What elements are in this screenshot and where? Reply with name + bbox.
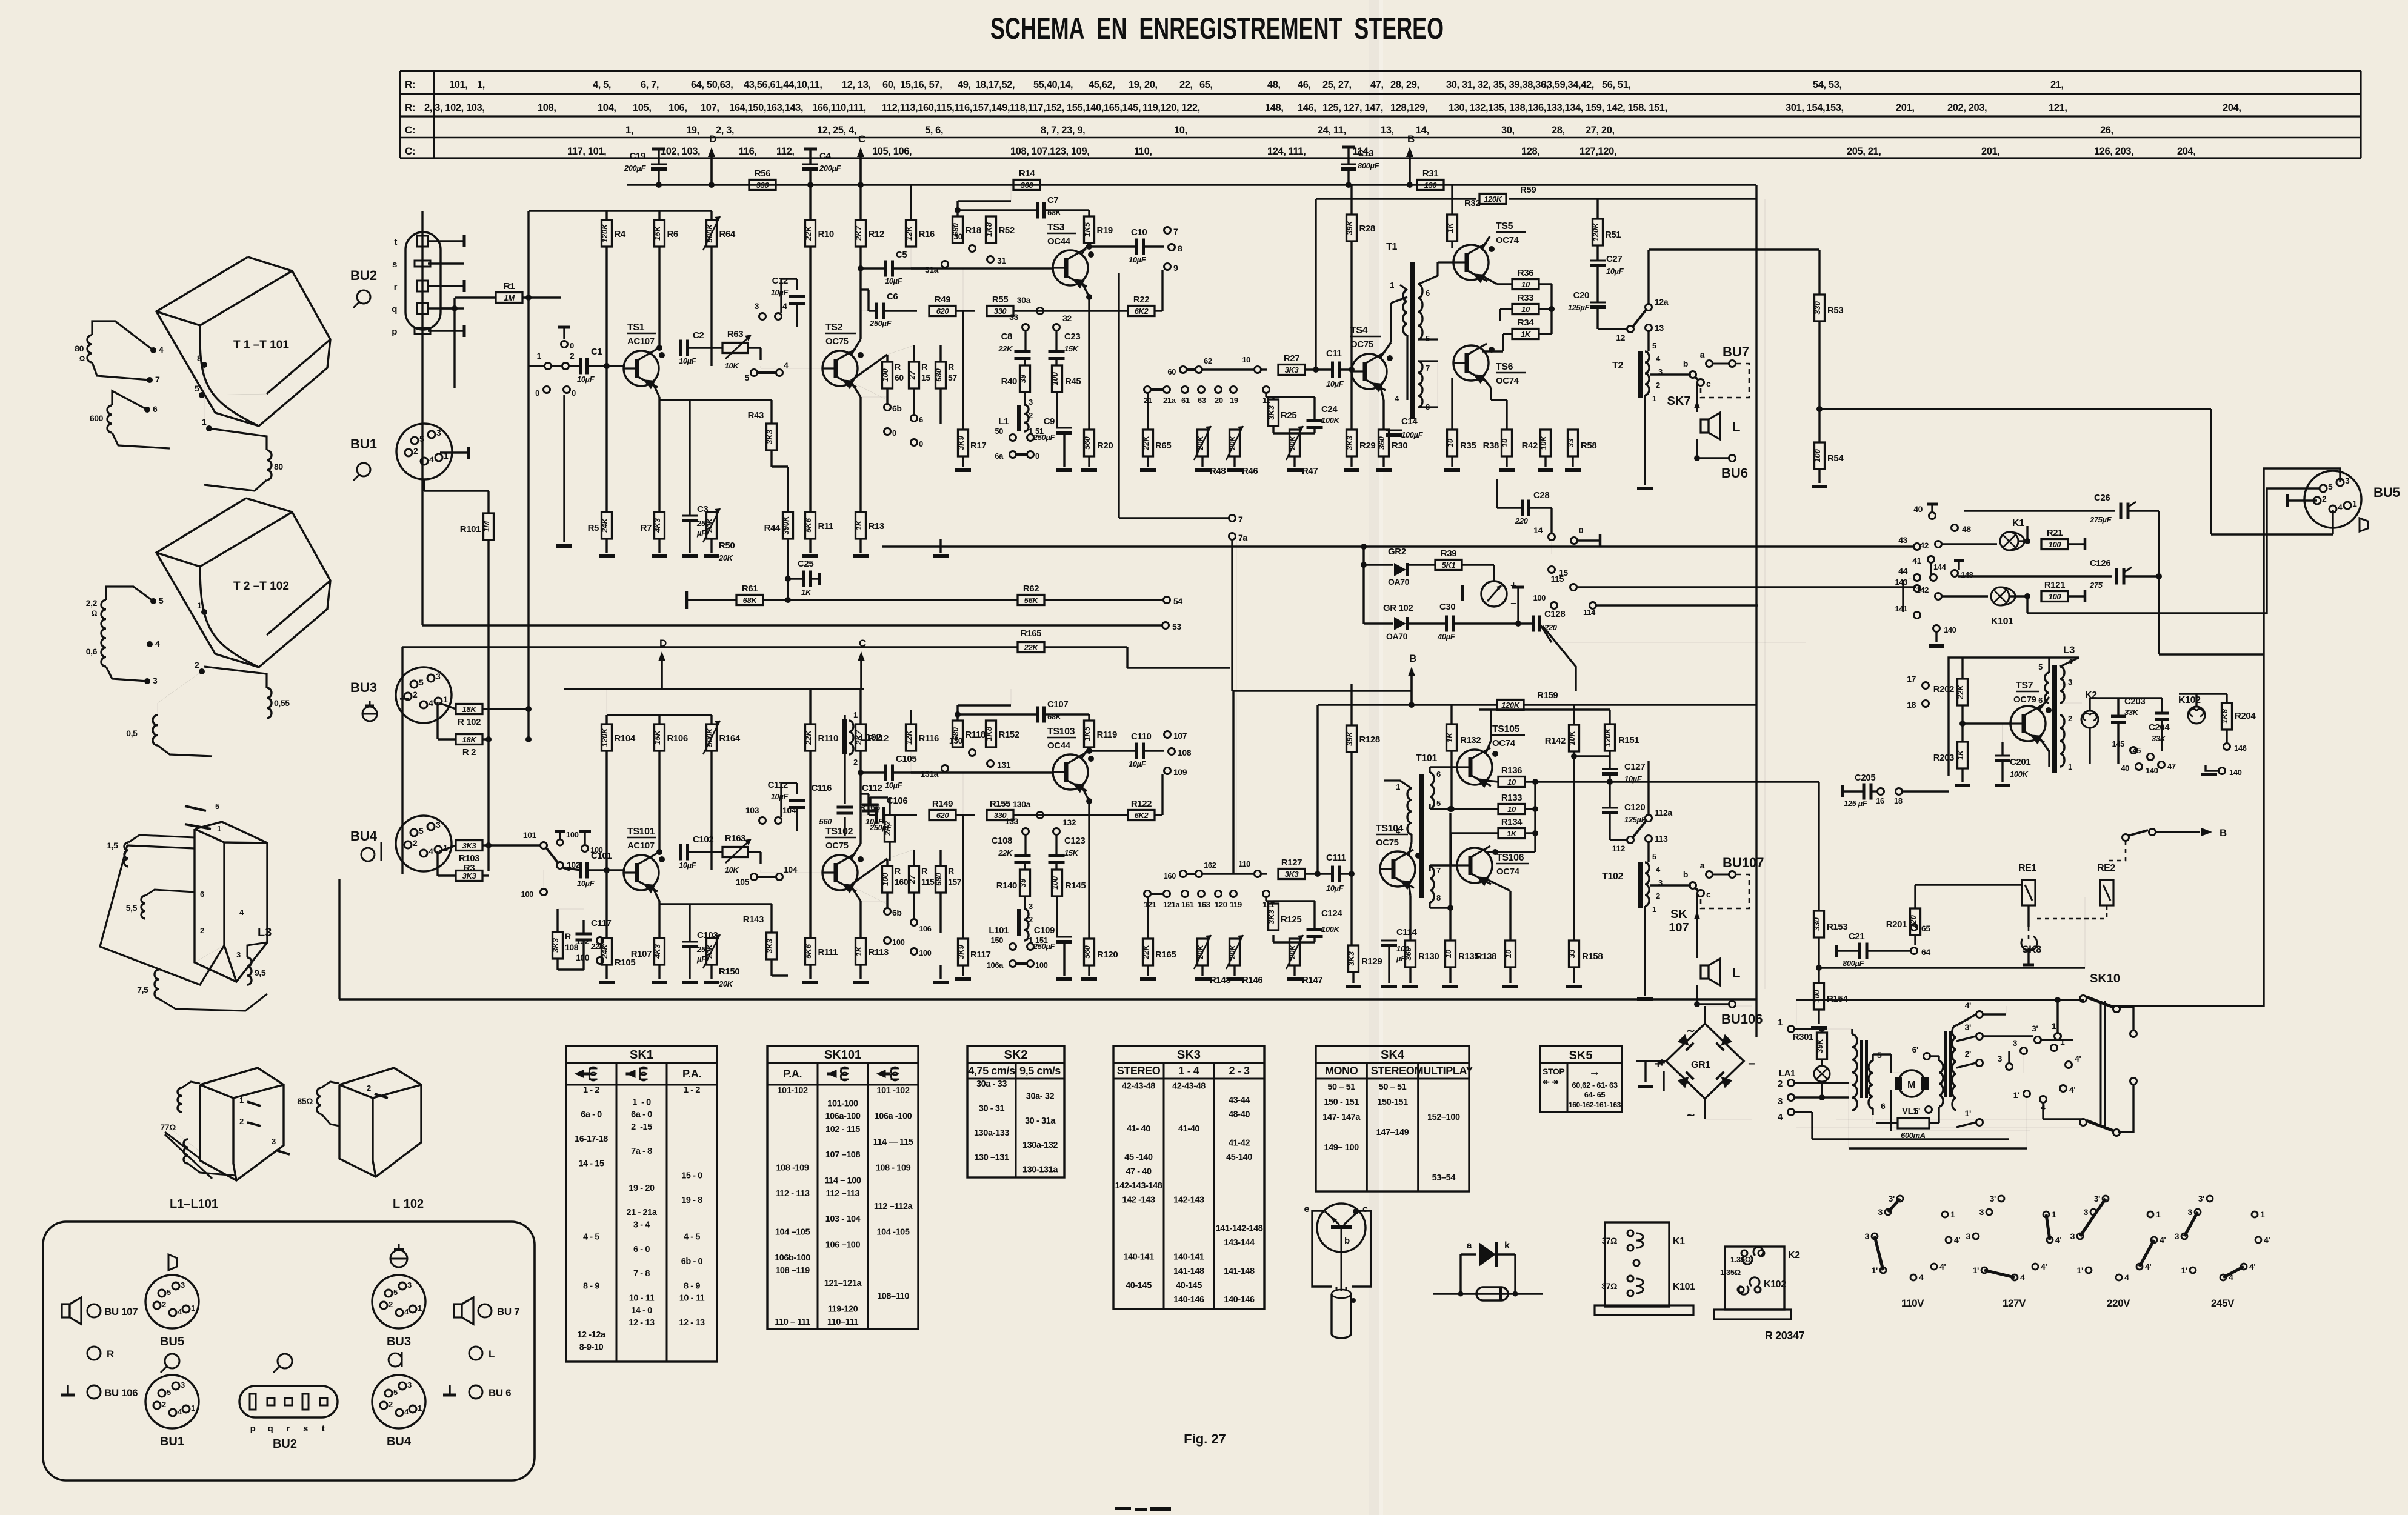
- svg-text:275µF: 275µF: [2089, 515, 2112, 524]
- svg-text:2: 2: [200, 926, 204, 935]
- svg-text:Ω: Ω: [79, 355, 85, 363]
- resistor R39: [1435, 560, 1462, 570]
- contact row 21-11: [1144, 387, 1151, 393]
- svg-text:R25: R25: [1281, 410, 1296, 421]
- wire y1597 long: [1819, 967, 2085, 968]
- svg-text:117, 101,: 117, 101,: [567, 146, 606, 157]
- svg-text:120: 120: [1215, 900, 1227, 909]
- svg-text:26,: 26,: [2100, 125, 2113, 136]
- svg-text:TS4: TS4: [1350, 325, 1368, 336]
- svg-text:2K2: 2K2: [883, 821, 892, 836]
- wire T2 tap to SK7: [1650, 373, 1691, 375]
- resistor R116: [906, 724, 916, 751]
- svg-text:4, 5,: 4, 5,: [593, 79, 611, 90]
- potentiometer R46: [1230, 430, 1240, 456]
- resistor R36: [1512, 279, 1539, 290]
- svg-text:1.35Ω: 1.35Ω: [1720, 1268, 1741, 1277]
- svg-text:116,: 116,: [739, 146, 757, 157]
- svg-text:10µF: 10µF: [679, 356, 697, 365]
- contact 45: [2147, 754, 2154, 761]
- wire BU4 pin4 to R103: [439, 845, 456, 851]
- svg-text:6: 6: [919, 415, 923, 424]
- svg-text:1: 1: [2052, 1021, 2056, 1031]
- ground: [1637, 487, 1653, 490]
- svg-text:126, 203,: 126, 203,: [2094, 146, 2133, 157]
- svg-text:64: 64: [1921, 947, 1930, 957]
- svg-text:R155: R155: [990, 799, 1010, 809]
- resistor R112: [856, 724, 866, 751]
- svg-text:b: b: [1683, 870, 1688, 879]
- switch contacts 5/4: [751, 874, 758, 881]
- svg-text:3: 3: [2068, 678, 2072, 687]
- svg-text:10: 10: [1504, 949, 1513, 958]
- speaker icon BU7: [454, 1304, 462, 1317]
- svg-text:BU2: BU2: [350, 268, 377, 283]
- svg-text:t: t: [394, 237, 397, 247]
- capacitor C12: [789, 295, 805, 298]
- svg-text:40µF: 40µF: [1437, 632, 1456, 641]
- svg-text:7a: 7a: [1238, 533, 1247, 542]
- capacitor C10: [1135, 239, 1138, 255]
- svg-text:41-42: 41-42: [1229, 1139, 1250, 1148]
- transistor TS105: [1457, 750, 1492, 785]
- svg-text:R17: R17: [970, 441, 986, 451]
- svg-text:150: 150: [991, 936, 1004, 945]
- svg-text:C108: C108: [992, 836, 1012, 846]
- wires SK10 area: [2056, 1000, 2058, 1033]
- svg-text:1M: 1M: [482, 521, 491, 532]
- svg-text:2': 2': [1965, 1049, 1971, 1059]
- resistor R154: [1814, 983, 1824, 1010]
- svg-text:5: 5: [195, 384, 199, 393]
- contact 53: [1162, 622, 1169, 629]
- svg-text:4 - 5: 4 - 5: [583, 1233, 599, 1242]
- svg-text:TS1: TS1: [627, 322, 645, 333]
- selector contacts right: [1983, 1035, 2033, 1037]
- svg-text:105,: 105,: [633, 102, 652, 113]
- resistor R118: [953, 721, 963, 747]
- contact BU6: [1697, 1003, 1729, 1005]
- capacitor C204: [2155, 712, 2169, 715]
- svg-text:5K6: 5K6: [804, 518, 813, 533]
- potentiometer R163: [722, 847, 748, 857]
- ground: [1502, 985, 1518, 988]
- mic symbol above BU1: [165, 1354, 179, 1368]
- switch contact 1/2: [545, 363, 552, 370]
- svg-text:22K: 22K: [1141, 944, 1150, 959]
- wire R59 line: [1316, 198, 1476, 199]
- svg-text:140-146: 140-146: [1173, 1295, 1204, 1305]
- svg-text:20K: 20K: [718, 979, 734, 988]
- svg-text:33,59,34,42,: 33,59,34,42,: [1541, 79, 1594, 90]
- svg-text:R:: R:: [405, 102, 415, 113]
- svg-text:2: 2: [195, 660, 199, 670]
- svg-text:e: e: [1304, 1204, 1310, 1214]
- svg-text:101-100: 101-100: [827, 1099, 858, 1108]
- wire TS7 collector to L3: [2039, 737, 2049, 751]
- svg-text:C13: C13: [1358, 148, 1373, 159]
- svg-text:140: 140: [1944, 625, 1956, 634]
- svg-text:3K3: 3K3: [765, 429, 774, 444]
- switch table SK3: [1113, 1046, 1264, 1309]
- contact 7/7a upper: [1229, 515, 1236, 522]
- svg-text:6a - 0: 6a - 0: [581, 1110, 602, 1120]
- wire TS3 base: [911, 267, 1054, 269]
- svg-text:47: 47: [2167, 762, 2176, 771]
- svg-text:C5: C5: [896, 250, 907, 260]
- svg-text:32: 32: [1062, 313, 1072, 323]
- svg-text:3: 3: [755, 301, 759, 311]
- svg-text:114: 114: [1583, 608, 1596, 617]
- svg-text:+: +: [1658, 1056, 1666, 1070]
- resistor R132: [1447, 724, 1457, 751]
- svg-text:→: →: [1589, 1065, 1601, 1079]
- svg-text:85Ω: 85Ω: [297, 1096, 313, 1106]
- wire switch to T2: [1647, 250, 1649, 304]
- svg-text:680: 680: [934, 368, 943, 381]
- wire sub-rail R4 row: [529, 210, 712, 211]
- svg-text:3: 3: [2070, 1231, 2075, 1241]
- switch SK8: [2028, 927, 2030, 939]
- svg-text:R47: R47: [1302, 466, 1318, 476]
- svg-text:4: 4: [1656, 865, 1661, 874]
- switch table SK101: [767, 1046, 918, 1329]
- wire y1080: [2159, 653, 2264, 655]
- svg-text:STEREO: STEREO: [1371, 1065, 1415, 1077]
- svg-text:3': 3': [1990, 1194, 1996, 1204]
- svg-text:12a: 12a: [1655, 297, 1669, 307]
- svg-text:130: 130: [949, 736, 963, 745]
- svg-text:47,: 47,: [1370, 79, 1384, 90]
- svg-text:45,62,: 45,62,: [1089, 79, 1115, 90]
- svg-text:19 - 20: 19 - 20: [629, 1184, 655, 1193]
- transistor TS104: [1380, 851, 1415, 887]
- resistor R101: [484, 513, 494, 540]
- capacitor C1: [579, 358, 582, 375]
- wire BU5 pin3 loop: [2110, 468, 2340, 1006]
- connector BU3: [372, 1275, 425, 1328]
- svg-text:R36: R36: [1518, 268, 1533, 278]
- transistor cylinder: [1332, 1294, 1351, 1338]
- svg-text:40: 40: [1913, 504, 1923, 514]
- svg-text:30a - 33: 30a - 33: [976, 1079, 1007, 1089]
- svg-text:10: 10: [1521, 280, 1530, 289]
- svg-text:1K: 1K: [801, 588, 812, 597]
- resistor R5: [602, 512, 612, 539]
- svg-text:R163: R163: [725, 833, 745, 844]
- capacitor C103: [682, 941, 698, 943]
- connector panel outline: [43, 1222, 535, 1480]
- svg-text:4: 4: [1396, 827, 1401, 836]
- svg-text:27: 27: [907, 874, 916, 884]
- svg-text:33K: 33K: [2124, 708, 2140, 717]
- svg-text:R203: R203: [1933, 753, 1954, 763]
- svg-text:7a - 8: 7a - 8: [631, 1147, 652, 1156]
- capacitor C7: [1036, 202, 1039, 219]
- svg-text:TS103: TS103: [1047, 727, 1075, 737]
- svg-text:R51: R51: [1605, 230, 1621, 240]
- svg-text:SK101: SK101: [824, 1048, 861, 1062]
- capacitor C112: [862, 804, 879, 807]
- svg-text:127V: 127V: [2003, 1297, 2026, 1309]
- transformer motor side: [1939, 1061, 1943, 1107]
- T1 coil 80 right: [267, 450, 272, 480]
- T2 coil right: [267, 688, 272, 718]
- contact 148: [1952, 570, 1958, 577]
- resistor R142: [1569, 725, 1579, 751]
- svg-text:4: 4: [429, 847, 433, 856]
- svg-text:115: 115: [1551, 574, 1564, 584]
- capacitor C6: [875, 303, 878, 319]
- resistor R10: [805, 220, 816, 247]
- ground: [1140, 977, 1156, 981]
- svg-text:132: 132: [1062, 817, 1076, 827]
- svg-text:R29: R29: [1359, 441, 1375, 451]
- svg-text:GR 102: GR 102: [1383, 603, 1413, 613]
- svg-text:T2: T2: [1612, 361, 1623, 371]
- diagonal wire: [1539, 624, 1552, 642]
- svg-text:BU5: BU5: [2373, 485, 2400, 500]
- svg-text:L 102: L 102: [393, 1197, 424, 1211]
- relay RE1: [2022, 880, 2035, 905]
- svg-text:C128: C128: [1544, 609, 1565, 619]
- potentiometer R63: [722, 343, 748, 353]
- svg-text:C26: C26: [2094, 493, 2110, 503]
- transformer T102: [1638, 862, 1643, 908]
- svg-text:600mA: 600mA: [1901, 1131, 1926, 1140]
- svg-text:0,6: 0,6: [86, 647, 98, 656]
- svg-text:100: 100: [1533, 593, 1546, 602]
- svg-text:80: 80: [75, 344, 84, 353]
- svg-text:6K2: 6K2: [1135, 811, 1149, 820]
- svg-text:201,: 201,: [1896, 102, 1915, 113]
- capacitor C109: [1056, 936, 1072, 938]
- svg-text:127,120,: 127,120,: [1579, 146, 1616, 157]
- a symbol BU4: [361, 842, 381, 861]
- svg-text:22K: 22K: [804, 225, 813, 241]
- transistor TS6: [1453, 345, 1489, 381]
- svg-text:AC107: AC107: [627, 336, 655, 347]
- svg-text:1K5: 1K5: [1082, 726, 1092, 741]
- node B lower: [1410, 675, 1413, 705]
- resistor R30: [1379, 430, 1389, 456]
- capacitor C203: [2111, 715, 2126, 718]
- svg-text:5K6: 5K6: [804, 944, 813, 959]
- resistor R166: [885, 815, 895, 842]
- contact 140 gnd: [2206, 765, 2218, 771]
- transistor TS102: [822, 855, 858, 890]
- svg-text:10: 10: [1446, 438, 1455, 447]
- resistor R120: [1084, 939, 1095, 965]
- coil L3 isometric: [195, 822, 267, 982]
- svg-text:2K7: 2K7: [854, 225, 863, 241]
- svg-text:13: 13: [1655, 323, 1664, 333]
- svg-text:1K: 1K: [1521, 330, 1532, 339]
- transistor TS106: [1457, 848, 1492, 883]
- svg-text:21 - 21a: 21 - 21a: [626, 1208, 657, 1217]
- svg-text:C23: C23: [1064, 331, 1080, 342]
- svg-text:5: 5: [419, 826, 424, 836]
- svg-text:54: 54: [1173, 596, 1182, 606]
- svg-text:5, 6,: 5, 6,: [925, 125, 943, 136]
- svg-text:160: 160: [1164, 871, 1176, 881]
- svg-text:146: 146: [2234, 744, 2247, 753]
- svg-text:360: 360: [1377, 436, 1386, 449]
- contact BU7: [1729, 871, 1736, 878]
- svg-text:R101: R101: [460, 524, 481, 534]
- svg-text:107 –108: 107 –108: [825, 1150, 861, 1160]
- capacitor C105: [884, 765, 887, 781]
- svg-text:Fig. 27: Fig. 27: [1184, 1431, 1226, 1447]
- svg-text:5: 5: [2328, 482, 2333, 491]
- svg-text:57: 57: [948, 373, 957, 382]
- svg-text:T 1 –T 101: T 1 –T 101: [233, 339, 289, 351]
- svg-text:48: 48: [1962, 524, 1971, 534]
- svg-text:30,: 30,: [1501, 125, 1515, 136]
- meter M: [1481, 581, 1507, 607]
- svg-text:10: 10: [1507, 777, 1516, 787]
- ground: [1195, 977, 1210, 981]
- svg-text:C6: C6: [887, 291, 898, 302]
- svg-text:2: 2: [389, 1400, 393, 1409]
- svg-text:110–111: 110–111: [827, 1317, 859, 1327]
- wire TS3 base: [911, 771, 1054, 773]
- svg-text:0,5: 0,5: [126, 728, 139, 738]
- lamp K102: [2188, 707, 2205, 724]
- svg-text:12, 25, 4,: 12, 25, 4,: [817, 125, 856, 136]
- svg-text:R39: R39: [1441, 548, 1456, 559]
- svg-text:R107: R107: [631, 949, 652, 959]
- svg-text:22K: 22K: [1024, 643, 1039, 652]
- L3 coil 7.5: [155, 970, 159, 999]
- svg-text:C9: C9: [1044, 416, 1055, 427]
- svg-text:C114: C114: [1396, 927, 1417, 937]
- svg-text:103: 103: [745, 805, 759, 815]
- svg-text:R53: R53: [1827, 305, 1843, 316]
- wire TS2 collector: [851, 844, 861, 859]
- svg-text:9: 9: [1173, 263, 1178, 273]
- svg-text:b: b: [1344, 1236, 1350, 1246]
- ground: [1538, 468, 1553, 472]
- speaker icon BU107: [62, 1304, 70, 1317]
- wire TS5 emitter: [1482, 236, 1490, 249]
- svg-text:145: 145: [2112, 739, 2125, 748]
- svg-text:112a: 112a: [1655, 808, 1672, 817]
- svg-text:10K: 10K: [1539, 435, 1548, 450]
- svg-text:44: 44: [1898, 566, 1907, 576]
- svg-text:↞ ↠: ↞ ↠: [1543, 1077, 1559, 1087]
- svg-text:3K3: 3K3: [1267, 909, 1276, 924]
- svg-text:C102: C102: [693, 834, 713, 845]
- svg-text:s: s: [392, 259, 397, 270]
- svg-text:4: 4: [1395, 394, 1399, 403]
- connector BU1: [145, 1375, 199, 1428]
- svg-text:390K: 390K: [781, 515, 790, 535]
- svg-text:4: 4: [1656, 354, 1661, 363]
- svg-text:BU4: BU4: [387, 1435, 412, 1448]
- svg-text:100: 100: [919, 948, 932, 957]
- T2 terminals: [150, 598, 156, 604]
- svg-text:13,: 13,: [1381, 125, 1394, 136]
- svg-text:10µF: 10µF: [1129, 759, 1147, 768]
- svg-text:119-120: 119-120: [828, 1305, 858, 1314]
- svg-text:100: 100: [1050, 371, 1059, 385]
- svg-text:108: 108: [565, 942, 579, 952]
- svg-text:4': 4': [2069, 1085, 2075, 1094]
- svg-text:R142: R142: [1545, 736, 1566, 746]
- svg-text:106a: 106a: [987, 961, 1004, 970]
- svg-text:3: 3: [2175, 1231, 2180, 1241]
- svg-text:C30: C30: [1439, 602, 1455, 612]
- svg-text:48,: 48,: [1267, 79, 1281, 90]
- svg-text:R111: R111: [818, 947, 838, 957]
- contact 100/114: [1551, 602, 1558, 609]
- svg-text:C12: C12: [772, 276, 788, 286]
- svg-text:OC74: OC74: [1496, 235, 1519, 245]
- svg-text:SK2: SK2: [1004, 1048, 1028, 1062]
- svg-text:18,17,52,: 18,17,52,: [975, 79, 1015, 90]
- svg-text:1: 1: [2156, 1210, 2161, 1219]
- svg-text:TS2: TS2: [825, 322, 843, 333]
- svg-text:−: −: [1510, 598, 1516, 610]
- ground: [1056, 468, 1072, 472]
- svg-text:43,56,61,44,10,11,: 43,56,61,44,10,11,: [744, 79, 822, 90]
- svg-text:R103: R103: [459, 853, 479, 864]
- svg-text:3K9: 3K9: [956, 435, 966, 450]
- svg-text:C107: C107: [1047, 699, 1068, 710]
- svg-text:C124: C124: [1321, 908, 1342, 919]
- wire switch to T2: [1647, 761, 1649, 814]
- svg-text:146,: 146,: [1298, 102, 1316, 113]
- svg-text:R121: R121: [2044, 580, 2065, 590]
- contact 144: [1930, 574, 1937, 581]
- svg-text:SK: SK: [1670, 908, 1687, 921]
- svg-text:1: 1: [2052, 1210, 2056, 1219]
- resistor R155: [987, 810, 1013, 821]
- svg-text:c: c: [1706, 890, 1711, 899]
- capacitor C5: [884, 261, 887, 277]
- svg-text:120K: 120K: [600, 727, 609, 747]
- relay coil K2 K102 pictorial: [1725, 1247, 1784, 1310]
- svg-text:C112: C112: [768, 780, 788, 790]
- lamp LA1: [1814, 1066, 1830, 1082]
- svg-text:OA70: OA70: [1388, 577, 1410, 587]
- wire TS4 base: [1352, 369, 1353, 370]
- svg-text:250µF: 250µF: [1033, 942, 1056, 951]
- svg-text:C7: C7: [1047, 195, 1058, 205]
- L3 coil 9.5: [247, 957, 252, 985]
- wire R165 line: [402, 646, 1018, 648]
- svg-text:T1: T1: [1386, 242, 1397, 252]
- resistor R129: [1349, 945, 1359, 972]
- contact 145: [2130, 747, 2137, 754]
- svg-text:MULTIPLAY: MULTIPLAY: [1415, 1065, 1473, 1077]
- svg-text:3: 3: [181, 1380, 185, 1390]
- capacitor C112: [789, 799, 805, 802]
- resistor R45: [1052, 365, 1062, 392]
- contact 143: [1914, 585, 1921, 592]
- svg-text:140: 140: [2146, 766, 2158, 775]
- svg-text:4: 4: [239, 908, 244, 917]
- svg-text:R43: R43: [748, 410, 764, 421]
- svg-text:3: 3: [436, 820, 441, 830]
- svg-text:R58: R58: [1581, 441, 1596, 451]
- connector BU3: [396, 667, 452, 723]
- svg-text:160-162-161-163: 160-162-161-163: [1569, 1100, 1621, 1109]
- L1 coils: [178, 1088, 182, 1112]
- svg-text:2: 2: [162, 1300, 166, 1309]
- svg-text:152–100: 152–100: [1427, 1113, 1460, 1122]
